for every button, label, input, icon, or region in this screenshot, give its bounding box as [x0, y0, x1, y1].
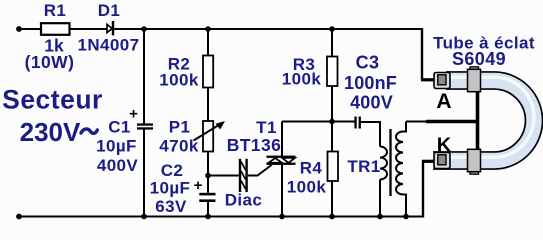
svg-text:400V: 400V — [350, 93, 393, 113]
diode D1 cathode bar — [112, 21, 114, 35]
svg-text:BT136: BT136 — [227, 135, 282, 155]
svg-text:K: K — [437, 135, 452, 157]
wire C3 to primary — [361, 122, 381, 147]
wire junction to diac — [208, 175, 239, 177]
wire trigger vertical between bands — [476, 88, 480, 154]
svg-text:100k: 100k — [287, 178, 327, 197]
transformer TR1 primary winding — [380, 147, 387, 180]
diode D1 triangle — [107, 24, 112, 32]
svg-text:R4: R4 — [300, 159, 323, 178]
wire R3 bottom lead — [331, 86, 333, 122]
junction dot R2 top — [205, 26, 211, 32]
svg-text:P1: P1 — [169, 118, 191, 137]
diac hatch — [241, 162, 246, 190]
junction dot primary bottom — [377, 214, 383, 220]
wire gate net horizontal — [282, 121, 355, 123]
svg-text:+: + — [129, 106, 138, 123]
trigger band bottom — [468, 149, 481, 171]
potentiometer P1 arrow — [194, 121, 226, 141]
svg-text:1N4007: 1N4007 — [78, 36, 140, 55]
wire diac to triac gate — [248, 165, 272, 176]
svg-text:10µF: 10µF — [96, 137, 137, 156]
trigger band top — [468, 69, 481, 91]
junction dot C1 top — [141, 26, 147, 32]
svg-text:A: A — [436, 90, 451, 113]
wire secondary top lead — [403, 122, 406, 132]
junction dot gate net — [329, 119, 335, 125]
wire C1 branch lower — [143, 130, 145, 217]
junction dot R3 top — [329, 26, 335, 32]
capacitor C3 right plate — [359, 117, 361, 129]
resistor R1 — [41, 23, 70, 35]
wire primary bottom lead — [379, 180, 381, 217]
wire R2 top lead — [207, 29, 209, 56]
svg-text:Diac: Diac — [225, 191, 263, 210]
capacitor C2 bottom plate — [199, 199, 215, 202]
wire triac bottom lead — [281, 164, 283, 217]
svg-text:C1: C1 — [108, 118, 131, 137]
wire C1 branch upper — [143, 29, 145, 123]
junction dot C1 bottom — [141, 214, 147, 220]
resistor R3 — [327, 57, 338, 87]
junction dot triac bottom — [279, 214, 285, 220]
wire R4 top lead — [331, 122, 333, 152]
wire P1 bottom lead — [207, 151, 209, 176]
svg-text:100k: 100k — [282, 70, 322, 89]
wire anode drop — [421, 28, 423, 80]
capacitor C1 bottom plate — [137, 127, 153, 129]
flash tube glass fill — [433, 81, 534, 161]
junction dot secondary bottom — [403, 214, 409, 220]
wire secondary bottom lead — [403, 195, 406, 217]
svg-text:100nF: 100nF — [344, 73, 397, 93]
tube cathode cap — [434, 153, 450, 169]
wire P1/C2 junction to C2 — [207, 176, 209, 193]
tube cathode electrode square — [438, 155, 446, 165]
capacitor C2 top plate — [199, 193, 215, 196]
diac right bar — [245, 159, 247, 192]
wire triac top lead — [281, 122, 283, 157]
svg-text:63V: 63V — [155, 197, 187, 216]
svg-text:TR1: TR1 — [347, 157, 380, 176]
svg-text:(10W): (10W) — [25, 52, 75, 72]
tube anode electrode square — [438, 75, 446, 85]
junction dot P1-diac — [205, 173, 211, 179]
resistor R4 — [328, 152, 339, 182]
wire trigger thick horizontal — [426, 120, 478, 124]
wire cathode riser — [422, 161, 424, 218]
transformer TR1 core — [389, 129, 391, 196]
triac T1 top bar — [267, 156, 296, 158]
svg-text:+: + — [194, 177, 203, 194]
svg-text:R1: R1 — [44, 1, 67, 20]
potentiometer P1 body — [203, 121, 213, 152]
flash tube glass highlight — [433, 77, 534, 157]
trigger band top tab — [470, 67, 479, 72]
svg-text:C2: C2 — [161, 161, 184, 180]
wire R4 bottom lead — [331, 181, 333, 217]
svg-text:S6049: S6049 — [452, 49, 506, 69]
svg-text:230V: 230V — [20, 117, 81, 147]
junction dot C2 bottom — [205, 214, 211, 220]
terminal dot bottom left — [16, 214, 22, 220]
triac T1 bottom bar — [267, 163, 296, 165]
junction dot R4 bottom — [329, 214, 335, 220]
svg-text:400V: 400V — [97, 156, 139, 175]
flash tube glass outline — [433, 81, 534, 161]
transformer TR1 secondary winding — [396, 132, 403, 195]
svg-text:10µF: 10µF — [150, 179, 191, 198]
triac T1 right triangle — [282, 158, 295, 163]
wire bottom rail — [19, 216, 423, 218]
triac T1 left triangle — [269, 158, 283, 163]
capacitor C1 top plate — [137, 123, 153, 125]
svg-text:Secteur: Secteur — [2, 85, 103, 115]
svg-text:100k: 100k — [159, 71, 199, 90]
resistor R2 — [203, 56, 213, 88]
terminal dot top left — [16, 26, 22, 32]
wire R2 to P1 — [207, 87, 209, 122]
wire C2 bottom lead — [207, 202, 209, 217]
wire top rail — [19, 28, 422, 30]
wire R3 top lead — [331, 29, 333, 57]
capacitor C3 left plate — [354, 117, 356, 129]
svg-text:D1: D1 — [98, 1, 121, 20]
trigger band bottom tab — [470, 170, 479, 175]
tube anode cap — [434, 73, 450, 89]
diac left bar — [239, 159, 241, 192]
svg-text:470k: 470k — [159, 137, 199, 156]
svg-text:C3: C3 — [356, 53, 380, 73]
wire trigger thin — [406, 121, 428, 123]
